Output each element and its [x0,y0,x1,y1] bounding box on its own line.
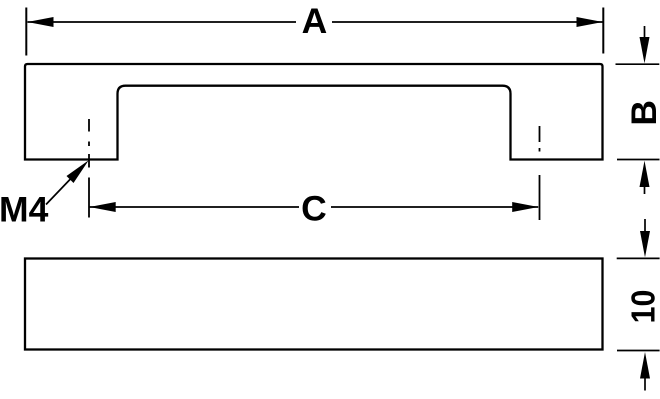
dimension line A left segment [28,21,297,23]
handle profile outline [25,64,603,160]
arrowhead C left [90,202,116,212]
extension line right of dimension A [602,8,604,54]
handle side view rectangle [25,259,603,350]
extension line top of dimension 10 [617,257,660,259]
leader arrowhead M4 [67,160,89,183]
center line right (hole axis) [539,126,541,220]
svg-text:10: 10 [626,290,660,324]
svg-text:M4: M4 [0,189,49,229]
arrow below 10 pointing up [644,377,646,391]
dimension line C right segment [331,206,538,208]
leader line M4 [46,169,80,205]
extension line left of dimension A [25,8,27,56]
arrow above 10 pointing down [644,219,646,233]
arrow below B pointing up [644,182,646,194]
dimension line C left segment [90,206,300,208]
arrowhead A right [577,17,603,27]
dimension line A right segment [332,21,603,23]
arrowhead A left [27,17,53,27]
extension line top of dimension B [616,63,660,65]
extension line bottom of dimension 10 [617,350,660,352]
center line left (M4 hole axis) [88,119,90,218]
arrowhead C right [512,202,538,212]
extension line bottom of dimension B [617,159,660,161]
svg-text:B: B [624,100,660,126]
svg-text:A: A [302,1,328,41]
svg-text:C: C [301,188,327,228]
arrow above B pointing down [644,26,646,40]
